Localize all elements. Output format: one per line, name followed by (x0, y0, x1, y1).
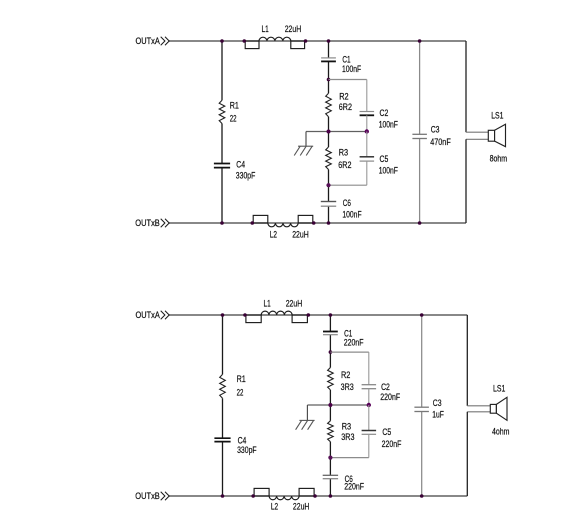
svg-text:C2: C2 (381, 382, 390, 392)
svg-text:330pF: 330pF (237, 445, 257, 455)
junction middle top bottom circuit (329, 313, 333, 317)
capacitor C5 bottom circuit (362, 405, 402, 449)
wire middle branch bottom circuit (329, 315, 331, 496)
capacitor C1 bottom circuit (323, 329, 364, 348)
junction L2 left top circuit (251, 221, 255, 225)
svg-text:100nF: 100nF (379, 165, 399, 175)
junction C3 bottom bottom circuit (420, 494, 424, 498)
wire mid node row top circuit (306, 131, 367, 133)
svg-text:22uH: 22uH (292, 230, 309, 240)
junction middle bottom bottom circuit (329, 494, 333, 498)
svg-text:L1: L1 (264, 298, 271, 308)
svg-text:OUTxA: OUTxA (136, 310, 160, 320)
svg-text:C5: C5 (382, 427, 391, 437)
svg-text:L2: L2 (271, 501, 278, 511)
capacitor C6 top circuit (321, 198, 362, 219)
port OUTxA top circuit (136, 36, 170, 46)
wire mid node row bottom circuit (307, 404, 368, 406)
svg-text:3R3: 3R3 (341, 432, 354, 442)
wire top bus top circuit (169, 40, 466, 42)
svg-text:330pF: 330pF (236, 171, 256, 181)
junction node below C1 bottom circuit (329, 350, 333, 354)
svg-text:6R2: 6R2 (339, 102, 352, 112)
wire bottom bus bottom circuit (169, 495, 467, 497)
svg-text:R2: R2 (339, 91, 348, 101)
junction L2 right top circuit (312, 221, 316, 225)
wire C5 to lower node top circuit (329, 161, 367, 185)
junction middle bottom top circuit (327, 221, 331, 225)
port OUTxB top circuit (135, 218, 169, 228)
junction lower node bottom circuit (328, 456, 332, 460)
svg-text:22uH: 22uH (286, 298, 303, 308)
svg-text:220nF: 220nF (380, 392, 400, 402)
svg-text:100nF: 100nF (342, 209, 362, 219)
svg-text:220nF: 220nF (344, 337, 364, 347)
svg-text:22: 22 (237, 388, 244, 398)
svg-text:R3: R3 (339, 148, 348, 158)
junction C3 top top circuit (418, 39, 422, 43)
svg-text:L1: L1 (262, 24, 269, 34)
ground bottom circuit (296, 405, 315, 430)
junction C3 bottom top circuit (418, 221, 422, 225)
svg-text:OUTxA: OUTxA (136, 36, 160, 46)
wire node1 to C2 branch top circuit (329, 80, 367, 112)
svg-text:C6: C6 (343, 198, 351, 208)
resistor R3 top circuit (326, 147, 352, 170)
svg-text:R2: R2 (341, 370, 350, 380)
junction node below C1 top circuit (327, 78, 331, 82)
junction lower node top circuit (326, 183, 330, 187)
svg-text:C3: C3 (431, 124, 440, 134)
wire node1 to C2 branch bottom circuit (330, 352, 368, 385)
junction R1 top bottom circuit (221, 313, 225, 317)
speaker LS1 bottom circuit (490, 384, 509, 437)
svg-text:100nF: 100nF (342, 64, 362, 74)
wire C5 to lower node bottom circuit (330, 434, 368, 457)
junction mid node at capacitor branch top circuit (365, 129, 369, 133)
junction R1 bottom bottom circuit (221, 494, 225, 498)
wire speaker top top circuit (466, 41, 488, 132)
svg-text:C4: C4 (238, 436, 247, 446)
port OUTxA bottom circuit (136, 310, 170, 320)
wire R1/C4 branch top circuit (221, 41, 223, 223)
junction R1 bottom top circuit (220, 221, 224, 225)
wire top bus bottom circuit (169, 314, 467, 316)
wire R1/C4 branch bottom circuit (222, 315, 224, 496)
svg-text:R3: R3 (342, 421, 351, 431)
svg-text:220nF: 220nF (344, 481, 364, 491)
svg-text:22uH: 22uH (293, 501, 310, 511)
wire C3 branch top circuit (419, 41, 421, 223)
svg-text:OUTxB: OUTxB (135, 218, 160, 228)
svg-text:C5: C5 (380, 154, 389, 164)
port OUTxB bottom circuit (135, 491, 169, 501)
svg-text:LS1: LS1 (493, 384, 505, 394)
svg-text:4ohm: 4ohm (492, 427, 510, 437)
capacitor C4 top circuit (214, 160, 256, 181)
junction middle top top circuit (327, 39, 331, 43)
svg-text:470nF: 470nF (430, 137, 451, 147)
svg-text:L2: L2 (270, 230, 277, 240)
junction L1 right bottom circuit (307, 313, 311, 317)
junction mid node at capacitor branch bottom circuit (367, 403, 371, 407)
wire speaker bottom bottom circuit (467, 412, 490, 496)
ground top circuit (294, 132, 313, 156)
svg-text:22uH: 22uH (285, 24, 302, 34)
junction L1 left bottom circuit (243, 313, 247, 317)
svg-text:C3: C3 (433, 398, 442, 408)
inductor L2 top circuit (253, 215, 313, 239)
wire C2 to mid node top circuit (366, 115, 368, 131)
wire bottom bus top circuit (169, 222, 466, 224)
capacitor C1 top circuit (321, 55, 361, 74)
junction L2 right bottom circuit (313, 494, 317, 498)
wire C3 branch bottom circuit (421, 315, 423, 496)
svg-text:R1: R1 (230, 100, 239, 110)
wire C2 to mid node bottom circuit (368, 389, 370, 405)
svg-text:1uF: 1uF (432, 410, 444, 420)
junction C3 top bottom circuit (420, 313, 424, 317)
junction R1 top top circuit (220, 39, 224, 43)
wire speaker top bottom circuit (467, 315, 490, 406)
svg-text:8ohm: 8ohm (490, 154, 508, 164)
wire middle branch top circuit (328, 41, 330, 223)
wire speaker bottom top circuit (466, 139, 488, 223)
svg-text:3R3: 3R3 (341, 382, 354, 392)
capacitor C2 bottom circuit (362, 382, 401, 402)
svg-text:22: 22 (230, 114, 237, 124)
junction L1 right top circuit (304, 39, 308, 43)
inductor L1 top circuit (245, 24, 304, 49)
resistor R3 bottom circuit (328, 421, 355, 442)
capacitor C3 top circuit (412, 124, 451, 147)
junction L2 left bottom circuit (251, 494, 255, 498)
resistor R2 top circuit (326, 91, 352, 116)
svg-text:LS1: LS1 (491, 110, 503, 120)
junction mid node at resistor branch bottom circuit (328, 403, 332, 407)
inductor L2 bottom circuit (254, 488, 314, 511)
svg-text:220nF: 220nF (382, 439, 402, 449)
resistor R1 top circuit (219, 100, 239, 123)
capacitor C4 bottom circuit (214, 436, 257, 456)
svg-text:6R2: 6R2 (338, 160, 351, 170)
capacitor C3 bottom circuit (414, 398, 444, 420)
svg-text:100nF: 100nF (379, 120, 399, 130)
capacitor C2 top circuit (360, 108, 399, 129)
capacitor C5 top circuit (360, 132, 399, 176)
junction mid node at resistor branch top circuit (327, 130, 331, 134)
svg-text:C2: C2 (380, 108, 389, 118)
speaker LS1 top circuit (488, 110, 507, 163)
inductor L1 bottom circuit (246, 298, 308, 322)
capacitor C6 bottom circuit (323, 474, 365, 491)
svg-text:R1: R1 (237, 374, 246, 384)
svg-text:C4: C4 (236, 160, 245, 170)
resistor R2 bottom circuit (328, 368, 354, 393)
resistor R1 bottom circuit (220, 374, 246, 398)
junction L1 left top circuit (243, 39, 247, 43)
svg-text:OUTxB: OUTxB (135, 491, 160, 501)
